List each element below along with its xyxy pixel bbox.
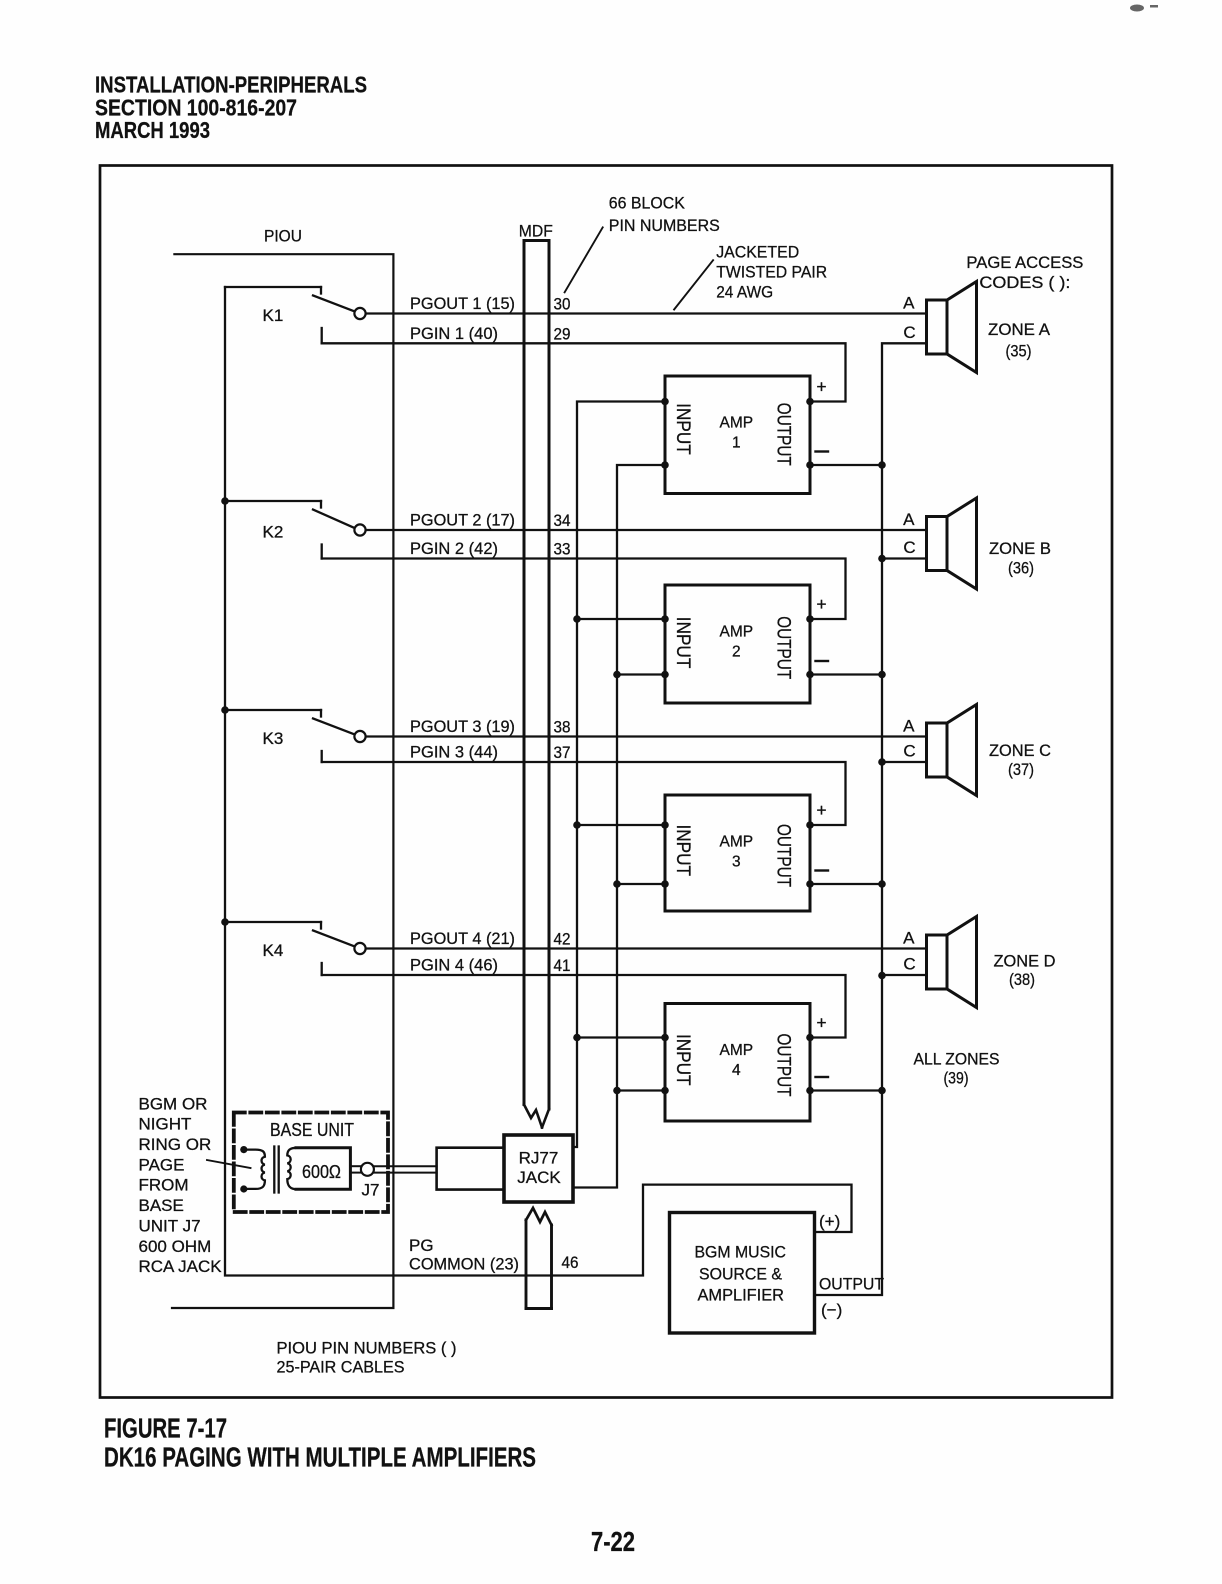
wire AMP 1 output − to common: [810, 464, 882, 466]
AMP 1 output + label: [816, 377, 826, 397]
svg-text:K1: K1: [263, 306, 284, 325]
amplifier AMP 1: [665, 376, 810, 494]
cable from RJ77 jack downward: [526, 1208, 552, 1309]
svg-text:7-22: 7-22: [591, 1526, 635, 1557]
speaker terminal C label: [903, 742, 915, 761]
wire pair J7 to plug: [374, 1166, 437, 1172]
66 block pin 34: [554, 511, 571, 530]
svg-text:34: 34: [554, 511, 571, 530]
svg-text:PGOUT 2 (17): PGOUT 2 (17): [410, 511, 515, 530]
AMP 4 output − label: [816, 1076, 829, 1078]
svg-text:+: +: [816, 377, 826, 397]
amplifier AMP 2: [665, 585, 810, 703]
net label PGIN 2: [410, 539, 498, 558]
svg-text:C: C: [903, 742, 915, 761]
svg-text:PG: PG: [409, 1236, 434, 1255]
66 block pin 30: [554, 295, 571, 314]
amplifier AMP 3: [665, 795, 810, 911]
AMP 1 output − label: [816, 450, 829, 452]
wire: speaker C / amp − common return: [815, 343, 927, 1295]
RCA jack J7: [350, 1163, 374, 1176]
svg-text:A: A: [903, 929, 915, 948]
600Ω termination: [296, 1148, 350, 1190]
svg-text:COMMON (23): COMMON (23): [409, 1255, 519, 1274]
wire: relay common chain and PG COMMON (23) run: [225, 287, 852, 1276]
wire: amp INPUT top chain from RJ77 jack: [573, 402, 665, 1148]
relay K1 switch contact: [225, 287, 366, 319]
plug into RJ77 jack: [437, 1148, 504, 1190]
wire AMP 2 output − to common: [810, 673, 882, 675]
svg-text:FIGURE 7-17: FIGURE 7-17: [104, 1413, 227, 1444]
wire Zone B terminal C to common: [882, 557, 927, 559]
wire PGOUT 4 (21) to Zone D speaker terminal A: [366, 947, 927, 949]
BGM OUTPUT label: [819, 1275, 884, 1294]
svg-text:PGOUT 3 (19): PGOUT 3 (19): [410, 717, 515, 736]
svg-text:JACK: JACK: [517, 1168, 561, 1187]
svg-text:INPUT: INPUT: [672, 825, 693, 877]
junctions on common return: [878, 461, 886, 1094]
svg-text:OUTPUT: OUTPUT: [773, 824, 794, 887]
speaker Zone D: [927, 917, 977, 1008]
junction dots on relay chain: [221, 497, 229, 926]
svg-text:OUTPUT: OUTPUT: [773, 1034, 794, 1097]
speaker terminal A label: [903, 510, 915, 529]
relay K1 label: [263, 306, 284, 325]
net label PGOUT 1: [410, 294, 515, 313]
svg-text:PGOUT 4 (21): PGOUT 4 (21): [410, 929, 515, 948]
svg-text:OUTPUT: OUTPUT: [773, 403, 794, 466]
AMP 2 output + label: [816, 594, 826, 614]
svg-text:BASE: BASE: [139, 1196, 184, 1215]
svg-text:46: 46: [562, 1253, 579, 1272]
svg-text:33: 33: [554, 540, 571, 559]
svg-text:+: +: [816, 594, 826, 614]
svg-text:MDF: MDF: [519, 222, 553, 241]
svg-text:NIGHT: NIGHT: [139, 1115, 192, 1134]
wire AMP 4 output − to common: [810, 1089, 882, 1091]
net label PGOUT 2: [410, 511, 515, 530]
svg-text:PIN NUMBERS: PIN NUMBERS: [609, 216, 720, 235]
svg-text:AMPLIFIER: AMPLIFIER: [698, 1286, 785, 1305]
svg-text:K3: K3: [263, 729, 284, 748]
66 block pin 29: [554, 324, 571, 343]
wire PGOUT 3 (19) to Zone C speaker terminal A: [366, 735, 927, 737]
svg-text:TWISTED PAIR: TWISTED PAIR: [716, 263, 827, 282]
AMP 1 terminals: [661, 398, 814, 469]
AMP 3 terminals: [661, 821, 814, 888]
speaker terminal C label: [903, 323, 915, 342]
wire Zone D terminal C to common: [882, 974, 927, 976]
66 block pin 41: [554, 956, 571, 975]
svg-text:ZONE B: ZONE B: [989, 539, 1051, 558]
AMP 4 output + label: [816, 1013, 826, 1033]
svg-text:30: 30: [554, 295, 571, 314]
svg-text:C: C: [903, 955, 915, 974]
Zone A label: [988, 320, 1051, 361]
MDF label: [519, 222, 553, 241]
scan smudge artifact: [1130, 5, 1158, 12]
svg-text:A: A: [903, 717, 915, 736]
header text: [95, 72, 367, 144]
66 block pin 38: [554, 718, 571, 737]
svg-text:K4: K4: [263, 941, 284, 960]
svg-text:3: 3: [732, 854, 741, 871]
BGM source note text: [139, 1094, 223, 1276]
66 block pin 42: [554, 930, 571, 949]
Zone C label: [989, 741, 1051, 779]
svg-text:PGIN 4 (46): PGIN 4 (46): [410, 956, 498, 975]
svg-text:JACKETED: JACKETED: [716, 243, 799, 262]
transformer in base unit: [240, 1146, 297, 1193]
svg-text:J7: J7: [362, 1181, 380, 1200]
svg-text:4: 4: [732, 1062, 741, 1079]
net label PGOUT 4: [410, 929, 515, 948]
figure caption: [104, 1413, 635, 1558]
66 block pin 46: [562, 1253, 579, 1272]
junctions on input bottom chain: [613, 671, 621, 1095]
J7 label: [362, 1181, 380, 1200]
svg-text:RING OR: RING OR: [139, 1135, 212, 1154]
wire Zone C terminal C to common: [882, 761, 927, 763]
svg-text:(39): (39): [944, 1069, 969, 1088]
svg-text:RCA JACK: RCA JACK: [139, 1257, 223, 1276]
AMP 3 output − label: [816, 869, 829, 871]
svg-text:BGM OR: BGM OR: [139, 1094, 208, 1113]
svg-text:RJ77: RJ77: [519, 1149, 559, 1168]
BGM output (+) label: [819, 1212, 840, 1231]
66 BLOCK PIN NUMBERS callout: [565, 194, 720, 293]
svg-text:BGM MUSIC: BGM MUSIC: [695, 1243, 787, 1262]
speaker terminal A label: [903, 717, 915, 736]
PIOU label: [264, 227, 302, 246]
svg-text:+: +: [816, 800, 826, 820]
RJ77 jack: [504, 1135, 573, 1202]
svg-text:(37): (37): [1008, 760, 1034, 779]
net label PGIN 3: [410, 743, 498, 762]
svg-text:A: A: [903, 294, 915, 313]
relay K4 label: [263, 941, 284, 960]
svg-text:AMP: AMP: [720, 1042, 754, 1059]
BASE UNIT dashed enclosure: [234, 1113, 388, 1213]
svg-text:INPUT: INPUT: [672, 617, 693, 669]
BASE UNIT label: [270, 1120, 354, 1140]
pointer line from note to transformer: [207, 1160, 251, 1168]
BGM output (−) label: [821, 1301, 842, 1320]
AMP 4 terminals: [661, 1034, 814, 1095]
svg-text:29: 29: [554, 324, 571, 343]
speaker Zone A: [927, 282, 977, 373]
svg-text:PAGE: PAGE: [139, 1155, 185, 1174]
wire AMP 3 output − to common: [810, 883, 882, 885]
svg-text:UNIT J7: UNIT J7: [139, 1216, 201, 1235]
svg-text:41: 41: [554, 956, 571, 975]
svg-text:INPUT: INPUT: [672, 1034, 693, 1086]
svg-text:38: 38: [554, 718, 571, 737]
wire PGOUT 2 (17) to Zone B speaker terminal A: [366, 529, 927, 531]
svg-text:K2: K2: [263, 523, 284, 542]
svg-text:ZONE C: ZONE C: [989, 741, 1051, 760]
svg-text:ZONE A: ZONE A: [988, 320, 1051, 339]
svg-text:AMP: AMP: [720, 414, 754, 431]
junctions on input top chain: [573, 615, 581, 1041]
svg-text:(36): (36): [1008, 559, 1034, 578]
relay K2 label: [263, 523, 284, 542]
svg-text:INPUT: INPUT: [672, 403, 693, 455]
svg-text:25-PAIR CABLES: 25-PAIR CABLES: [277, 1358, 405, 1377]
wire PGIN 1 (40) to AMP 1 output +: [322, 328, 846, 402]
svg-text:AMP: AMP: [720, 833, 754, 850]
svg-text:ZONE D: ZONE D: [994, 952, 1056, 971]
net label PGIN 4: [410, 956, 498, 975]
svg-text:(35): (35): [1006, 342, 1032, 361]
PIOU unit outline: [172, 254, 393, 1308]
speaker Zone B: [927, 498, 977, 589]
svg-text:OUTPUT: OUTPUT: [819, 1275, 884, 1294]
svg-text:PGIN 1 (40): PGIN 1 (40): [410, 324, 498, 343]
relay K3 switch contact: [225, 710, 366, 742]
relay K2 switch contact: [225, 501, 366, 536]
AMP 3 output + label: [816, 800, 826, 820]
svg-text:ALL ZONES: ALL ZONES: [914, 1050, 1000, 1069]
svg-text:1: 1: [732, 435, 741, 452]
svg-text:PIOU PIN NUMBERS ( ): PIOU PIN NUMBERS ( ): [277, 1339, 457, 1358]
BGM music source & amplifier: [670, 1213, 815, 1334]
svg-text:(−): (−): [821, 1301, 842, 1320]
svg-text:2: 2: [732, 644, 741, 661]
svg-text:AMP: AMP: [720, 623, 754, 640]
relay K3 label: [263, 729, 284, 748]
speaker terminal A label: [903, 929, 915, 948]
relay K4 switch contact: [225, 922, 366, 954]
svg-text:BASE UNIT: BASE UNIT: [270, 1120, 354, 1140]
svg-text:(38): (38): [1009, 970, 1035, 989]
svg-text:PAGE ACCESS: PAGE ACCESS: [966, 253, 1083, 272]
MDF 66-block cable: [524, 241, 549, 1128]
net label PG COMMON (23): [409, 1236, 519, 1274]
Zone D label: [994, 952, 1056, 990]
PIOU PIN NUMBERS note: [277, 1339, 457, 1377]
svg-text:PGIN 3 (44): PGIN 3 (44): [410, 743, 498, 762]
wire PGIN 2 (42) to AMP 2 output +: [322, 545, 846, 620]
svg-text:CODES ( ):: CODES ( ):: [979, 273, 1070, 292]
svg-text:OUTPUT: OUTPUT: [773, 616, 794, 679]
svg-text:24 AWG: 24 AWG: [716, 283, 773, 302]
ALL ZONES note: [914, 1050, 1000, 1088]
svg-text:PGIN 2 (42): PGIN 2 (42): [410, 539, 498, 558]
svg-text:FROM: FROM: [139, 1176, 189, 1195]
svg-text:PGOUT 1 (15): PGOUT 1 (15): [410, 294, 515, 313]
Zone B label: [989, 539, 1051, 578]
JACKETED TWISTED PAIR 24 AWG callout: [674, 243, 827, 310]
svg-text:66 BLOCK: 66 BLOCK: [609, 194, 686, 213]
speaker terminal C label: [903, 538, 915, 557]
svg-text:37: 37: [554, 743, 571, 762]
speaker terminal A label: [903, 294, 915, 313]
66 block pin 33: [554, 540, 571, 559]
wire PGIN 4 (46) to AMP 4 output +: [322, 963, 846, 1038]
svg-text:42: 42: [554, 930, 571, 949]
diagram border frame: [100, 166, 1112, 1398]
svg-text:PIOU: PIOU: [264, 227, 302, 246]
net label PGOUT 3: [410, 717, 515, 736]
amplifier AMP 4: [665, 1004, 810, 1122]
svg-text:600Ω: 600Ω: [302, 1162, 341, 1182]
AMP 2 output − label: [816, 660, 829, 662]
svg-text:MARCH 1993: MARCH 1993: [95, 117, 210, 143]
speaker Zone C: [927, 705, 977, 796]
svg-text:(+): (+): [819, 1212, 840, 1231]
svg-text:SOURCE &: SOURCE &: [699, 1265, 783, 1284]
svg-text:+: +: [816, 1013, 826, 1033]
wire: amp INPUT bottom chain from RJ77 jack: [573, 465, 665, 1188]
PAGE ACCESS CODES note: [966, 253, 1083, 292]
66 block pin 37: [554, 743, 571, 762]
wire PGIN 3 (44) to AMP 3 output +: [322, 751, 846, 825]
svg-text:A: A: [903, 510, 915, 529]
svg-text:C: C: [903, 538, 915, 557]
speaker terminal C label: [903, 955, 915, 974]
svg-text:C: C: [903, 323, 915, 342]
svg-text:DK16 PAGING WITH MULTIPLE AMPL: DK16 PAGING WITH MULTIPLE AMPLIFIERS: [104, 1442, 536, 1473]
AMP 2 terminals: [661, 615, 814, 678]
net label PGIN 1: [410, 324, 498, 343]
svg-text:600 OHM: 600 OHM: [139, 1237, 212, 1256]
wire PGOUT 1 (15) to Zone A speaker terminal A: [366, 312, 927, 314]
